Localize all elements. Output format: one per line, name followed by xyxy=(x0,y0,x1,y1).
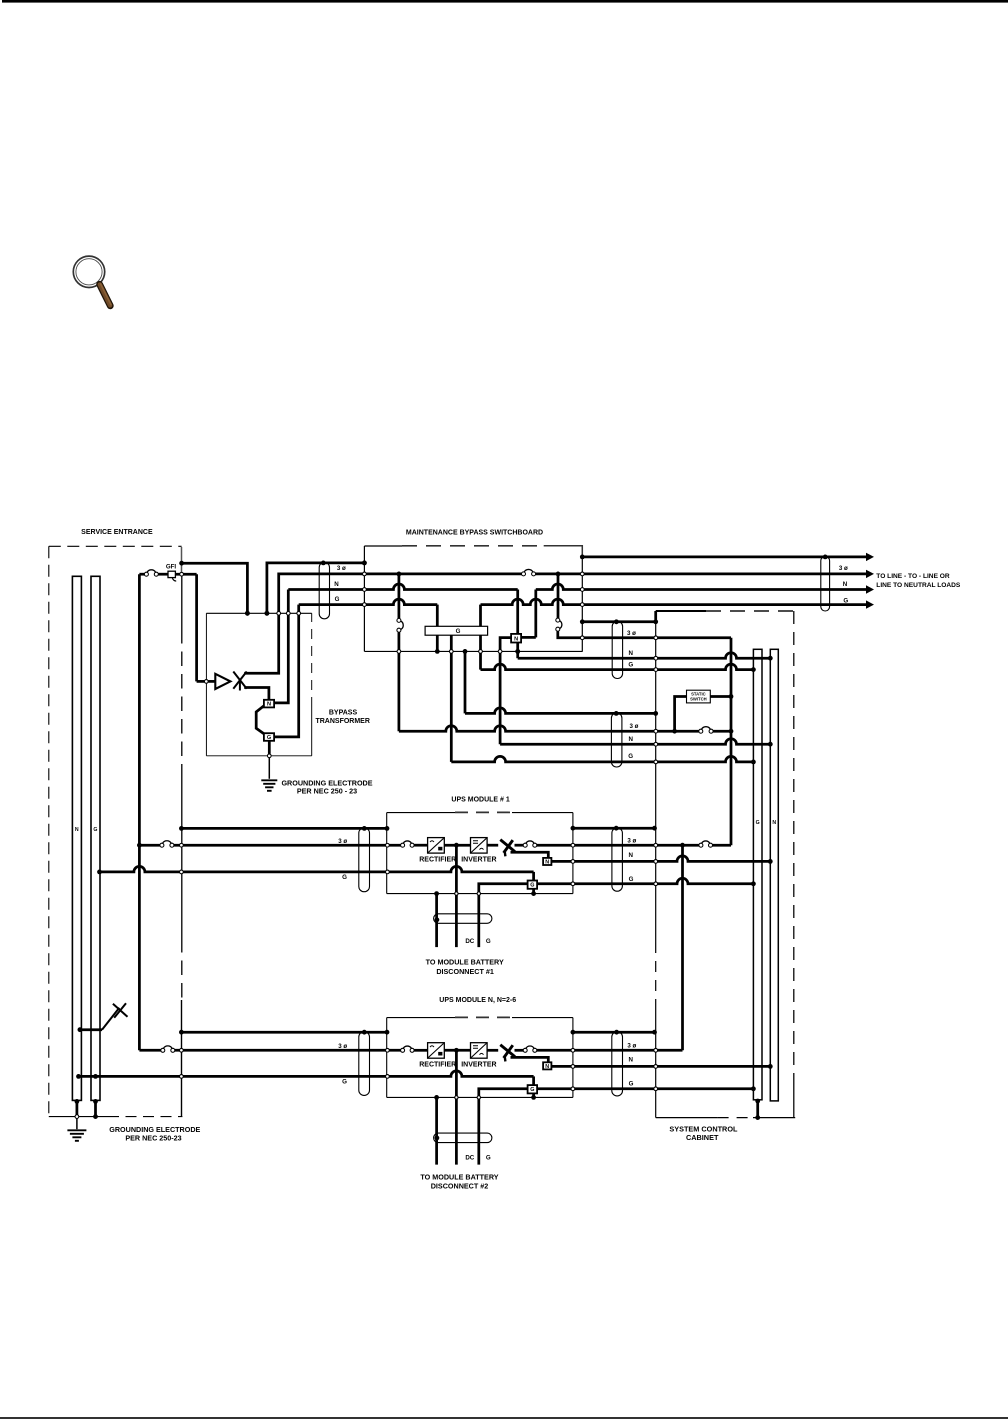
svg-text:G: G xyxy=(456,628,461,635)
svg-text:3 ø: 3 ø xyxy=(627,837,636,844)
wire inverter output moduleN xyxy=(487,1049,498,1052)
breaker moduleN output xyxy=(515,1049,524,1052)
wire DC negative module1 xyxy=(435,894,438,948)
page bottom border rule xyxy=(0,1417,1008,1419)
jumper N terminal to G terminal xyxy=(256,706,264,734)
G bar (system cabinet) xyxy=(753,649,762,1100)
svg-text:G: G xyxy=(267,735,271,741)
svg-text:N: N xyxy=(628,852,633,859)
svg-text:G: G xyxy=(843,597,848,604)
svg-text:G: G xyxy=(335,596,340,603)
UPS module 1 enclosure xyxy=(387,812,455,814)
svg-text:DC: DC xyxy=(465,938,474,945)
svg-text:3 ø: 3 ø xyxy=(337,565,346,572)
wire G feed to G bar y=761.9 xyxy=(450,635,453,762)
wire top output line y=556.9 xyxy=(582,556,866,559)
conduit oval crossing main feeder bundle xyxy=(319,562,329,619)
wire N main line y=589.5 right segment from N-link xyxy=(534,590,537,638)
wire moduleN N output top xyxy=(573,1031,655,1034)
svg-text:N: N xyxy=(545,860,549,866)
wire N run from N-link to N bar y=658.2 xyxy=(516,643,519,659)
conduit oval moduleN input xyxy=(359,1032,370,1096)
conduit oval at cabinet bundle xyxy=(611,713,622,767)
conduit oval battery leads module1 xyxy=(434,914,492,924)
inverter block moduleN xyxy=(471,1043,488,1059)
service entrance dashed enclosure xyxy=(49,545,182,547)
wire module1 N output top xyxy=(573,827,655,830)
svg-text:TO LINE - TO - LINE OR: TO LINE - TO - LINE OR xyxy=(876,573,950,580)
breaker module1 output at cabinet xyxy=(702,841,710,843)
svg-text:MAINTENANCE BYPASS SWITCHBOARD: MAINTENANCE BYPASS SWITCHBOARD xyxy=(406,530,543,537)
wire N feed to N bar y=744.2 xyxy=(500,638,511,745)
wire module1 3-phase output to riser xyxy=(573,844,699,847)
wire module1 N output y=861.4 xyxy=(551,856,770,861)
svg-text:N: N xyxy=(334,581,339,588)
svg-text:N: N xyxy=(628,650,633,657)
conduit oval at load-side bundle xyxy=(821,556,830,611)
wire moduleN G input y=1076.4 xyxy=(77,1075,387,1078)
svg-text:DC: DC xyxy=(465,1155,474,1162)
wire GFI feeder from service (y=574.2) xyxy=(139,573,144,576)
breaker drop from 3-phase main at x=398.9 xyxy=(398,574,401,619)
wire inverter output xyxy=(487,844,498,847)
conduit oval moduleN output xyxy=(612,1032,623,1096)
svg-text:RECTIFIER: RECTIFIER xyxy=(419,856,456,863)
wire battery G lead module1 xyxy=(479,884,528,947)
svg-text:GFI: GFI xyxy=(166,563,177,570)
wire GFI drop to UPS modules x=139.4 xyxy=(138,574,141,1050)
wire moduleN N input y=1032.2 xyxy=(181,1031,387,1034)
svg-text:G: G xyxy=(530,883,534,889)
transformer N terminal square xyxy=(264,700,274,708)
wire DC positive moduleN xyxy=(455,1050,458,1164)
conduit oval module1 output xyxy=(612,828,623,891)
svg-text:3 ø: 3 ø xyxy=(627,1042,636,1049)
breaker module1 3-phase input xyxy=(163,841,172,844)
module output switch X module1 xyxy=(500,840,515,852)
svg-text:N: N xyxy=(75,827,79,833)
page top border rule xyxy=(2,0,1008,3)
svg-text:G: G xyxy=(628,753,633,760)
wire static-switch riser x=731 xyxy=(730,638,733,845)
svg-text:G: G xyxy=(756,820,760,826)
G bus bar in switchboard xyxy=(425,626,488,635)
SCR crossed element xyxy=(233,672,246,689)
rectifier block module1 xyxy=(428,838,445,854)
wire G terminal chassis bond moduleN xyxy=(532,1093,535,1097)
svg-text:G: G xyxy=(628,661,633,668)
wire moduleN 3-phase input y=1050.3 xyxy=(139,1049,160,1052)
svg-text:DISCONNECT #1: DISCONNECT #1 xyxy=(436,967,494,976)
module output switch X moduleN xyxy=(500,1045,515,1057)
wire G-bus bottom stub xyxy=(94,1100,97,1116)
bypass transformer enclosure xyxy=(206,612,311,614)
svg-text:N: N xyxy=(514,637,518,643)
wire module1 N input y=828.4 xyxy=(181,827,387,830)
svg-text:N: N xyxy=(267,702,271,708)
rectifier block moduleN xyxy=(428,1043,445,1059)
breaker on 3-phase main (maintenance bypass) xyxy=(524,569,533,572)
wire rectifier to inverter with DC tap xyxy=(444,844,470,847)
wire moduleN G input inside to G terminal xyxy=(387,1071,533,1076)
wire SCR to N-terminal xyxy=(244,688,269,700)
service entrance bottom edge xyxy=(49,1116,108,1118)
N-link square in switchboard xyxy=(511,634,521,643)
wire G main line y=604.6 right segment from G-bus xyxy=(479,605,482,627)
wire G terminal chassis bond module1 xyxy=(532,889,535,894)
svg-text:UPS MODULE N, N=2-6: UPS MODULE N, N=2-6 xyxy=(439,997,516,1004)
svg-text:G: G xyxy=(629,876,634,883)
bus bar N (service) xyxy=(72,576,81,1100)
conduit oval module1 input xyxy=(359,828,370,892)
svg-text:N: N xyxy=(843,581,848,588)
wire static switch left lead xyxy=(675,697,687,732)
svg-text:G: G xyxy=(629,1080,634,1087)
svg-text:G: G xyxy=(486,938,491,945)
wire bypass riser module1 to moduleN x=682.5 xyxy=(681,845,684,1050)
disconnect switch on service N bus xyxy=(80,1028,102,1031)
wire module1 G input inside to G terminal xyxy=(387,866,533,872)
breaker on bypass 3-phase run xyxy=(701,727,710,730)
svg-text:G: G xyxy=(342,874,347,881)
svg-text:G: G xyxy=(93,827,97,833)
svg-text:INVERTER: INVERTER xyxy=(461,1062,496,1069)
wire 3-phase main line y=573.9 xyxy=(279,574,522,613)
svg-text:3 ø: 3 ø xyxy=(338,1043,347,1050)
transformer G terminal square xyxy=(264,733,274,741)
wire static switch right lead xyxy=(710,695,731,698)
svg-text:3 ø: 3 ø xyxy=(338,838,347,845)
wire bond run y=713.4 xyxy=(464,651,467,713)
N terminal square module1 xyxy=(543,858,551,865)
wire DC negative moduleN xyxy=(435,1097,438,1164)
wire module1 3-phase input y=845.2 xyxy=(139,844,160,847)
wire rectifier to inverter with DC tap moduleN xyxy=(444,1049,470,1052)
svg-text:SERVICE ENTRANCE: SERVICE ENTRANCE xyxy=(81,529,153,536)
G terminal square module1 xyxy=(528,881,538,889)
wire bypass 3-phase run y=731.2 to system cabinet xyxy=(399,726,699,731)
svg-text:N: N xyxy=(628,1057,633,1064)
svg-text:PER NEC 250 - 23: PER NEC 250 - 23 xyxy=(297,787,357,796)
svg-text:G: G xyxy=(486,1155,491,1162)
wire link y=621.8 from switchboard edge to cabinet xyxy=(582,611,655,622)
wire battery G lead moduleN xyxy=(479,1089,528,1165)
wire module1 G output y=883.8 xyxy=(537,878,753,883)
wire N-link right to N main xyxy=(521,636,536,639)
wire G main line y=604.6 left segment into G-bus xyxy=(299,599,438,605)
N terminal square moduleN xyxy=(543,1062,551,1069)
wire G run from G-bus to G bar y=669.6 xyxy=(479,635,482,669)
bus bar G (service) xyxy=(91,576,100,1100)
conduit oval battery leads moduleN xyxy=(434,1133,492,1143)
svg-text:LINE TO NEUTRAL LOADS: LINE TO NEUTRAL LOADS xyxy=(876,582,961,589)
conduit oval at static bundle xyxy=(612,621,622,678)
breaker moduleN 3-phase input xyxy=(163,1046,172,1049)
wire DC positive module1 xyxy=(455,845,458,947)
svg-text:UPS MODULE # 1: UPS MODULE # 1 xyxy=(451,797,509,804)
wire G bar bottom stub xyxy=(756,1100,759,1118)
wire N main line y=589.5 left segment into N-link xyxy=(288,584,517,590)
breaker module1 output xyxy=(515,844,524,847)
svg-text:G: G xyxy=(342,1078,347,1085)
wire heavy neutral branch y=562.9 left segment xyxy=(182,563,248,613)
SCR input node xyxy=(197,680,205,683)
svg-text:3 ø: 3 ø xyxy=(839,565,848,572)
svg-text:3 ø: 3 ø xyxy=(627,630,636,637)
breaker drop from 3-phase main at x=557.8 (bundle to static switch) xyxy=(557,574,560,618)
wire junction dots xyxy=(75,1099,80,1104)
svg-text:DISCONNECT #2: DISCONNECT #2 xyxy=(431,1181,489,1190)
inverter block module1 xyxy=(471,838,488,854)
svg-text:N: N xyxy=(545,1064,549,1070)
static switch box xyxy=(687,690,711,703)
svg-text:RECTIFIER: RECTIFIER xyxy=(419,1062,456,1069)
wire heavy neutral branch y=562.9 right segment xyxy=(267,563,365,613)
breaker on GFI line xyxy=(147,570,156,573)
N bar (system cabinet) xyxy=(770,649,778,1101)
wire N-bus bottom stub to grounding electrode xyxy=(76,1100,79,1116)
G terminal square moduleN xyxy=(528,1085,538,1093)
wire G terminal to G main riser xyxy=(274,613,299,737)
svg-text:G: G xyxy=(530,1087,534,1093)
switch blade to N terminal module1 xyxy=(511,852,549,858)
wire G-bus lower leg to ground run xyxy=(436,635,439,651)
wire moduleN 3-phase output to riser xyxy=(573,1049,683,1052)
wire N terminal to N main riser xyxy=(274,613,288,703)
svg-text:CABINET: CABINET xyxy=(686,1133,719,1142)
wire G terminal to grounding electrode xyxy=(268,741,271,754)
ground symbol (service grounding electrode) xyxy=(67,1129,86,1131)
switch blade to N terminal moduleN xyxy=(511,1057,549,1062)
ground symbol (bypass transformer) xyxy=(261,779,277,781)
UPS module N enclosure xyxy=(387,1017,455,1019)
breaker moduleN inside input xyxy=(403,1046,411,1048)
breaker module1 inside input xyxy=(403,841,411,843)
svg-text:N: N xyxy=(628,736,633,743)
SCR triangle xyxy=(215,674,230,689)
wire GFI drop to bypass transformer x=196.6 xyxy=(195,574,198,681)
svg-text:TRANSFORMER: TRANSFORMER xyxy=(315,718,369,725)
svg-text:SWITCH: SWITCH xyxy=(690,697,707,702)
GFI device square xyxy=(168,571,175,577)
svg-text:TO MODULE BATTERY: TO MODULE BATTERY xyxy=(426,957,504,966)
wire moduleN N output y=1066.4 xyxy=(551,1065,770,1068)
svg-text:INVERTER: INVERTER xyxy=(461,856,496,863)
svg-text:3 ø: 3 ø xyxy=(630,723,639,730)
magnifier icon (note graphic) xyxy=(73,256,111,306)
svg-text:N: N xyxy=(772,820,776,826)
system control cabinet enclosure xyxy=(656,610,706,612)
wire moduleN G output y=1088.8 xyxy=(537,1087,753,1090)
wire service neutral riser x=181.4 (solid overlay on box edge) xyxy=(181,547,183,576)
wire crossing nodes (open circles) xyxy=(75,1115,79,1119)
svg-text:STATIC: STATIC xyxy=(691,691,706,696)
svg-text:PER NEC 250-23: PER NEC 250-23 xyxy=(125,1134,181,1143)
wire module1 G input y=871.9 xyxy=(100,866,388,872)
maintenance bypass switchboard enclosure xyxy=(364,545,402,547)
wire SCR to 3-phase riser xyxy=(244,613,279,673)
svg-text:BYPASS: BYPASS xyxy=(329,709,358,716)
svg-text:TO MODULE BATTERY: TO MODULE BATTERY xyxy=(420,1173,498,1182)
